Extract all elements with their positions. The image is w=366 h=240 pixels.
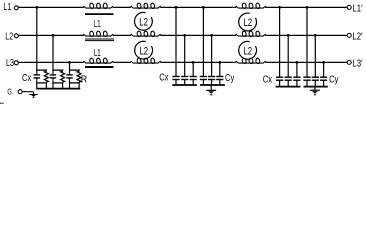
choke L2b row2 coil — [236, 31, 266, 37]
svg-text:L2: L2 — [243, 46, 252, 58]
capacitor Cx3 (left) — [69, 70, 71, 75]
junction dot L1 to right Cx — [278, 6, 281, 9]
svg-text:L2: L2 — [5, 32, 13, 43]
wire mid Cy rail to ground — [210, 85, 212, 90]
junction dot L3 to right Cx — [296, 61, 299, 64]
choke L2b row1 coil — [236, 3, 266, 9]
wire G to ground — [22, 91, 33, 93]
output terminal L3' — [347, 60, 351, 64]
capacitor mid Cy2 — [211, 35, 213, 76]
inductor L1 row2 coil — [83, 31, 113, 37]
resistor R2 — [62, 70, 64, 71]
CxR pair2 legs to rail — [52, 83, 54, 89]
wire L2 input segment — [18, 34, 83, 36]
CxR pair2 bottom bar — [52, 82, 63, 84]
junction dot L3 to mid Cy — [218, 61, 221, 64]
right Cy star rail — [304, 86, 328, 88]
capacitor mid Cy3 — [219, 62, 221, 76]
inductor L1 row3 coil — [83, 58, 113, 64]
CxR pair1 top bar — [36, 69, 47, 71]
svg-text:L2: L2 — [243, 17, 252, 29]
svg-text:L1: L1 — [3, 2, 11, 13]
junction dot L1 to mid Cx — [175, 6, 178, 9]
CxR pair3 top bar — [69, 69, 80, 71]
capacitor mid Cx2 — [184, 35, 186, 76]
inductor L1 row1 coil — [83, 3, 113, 9]
wire L1 between L1 and L2 coils — [113, 6, 131, 8]
junction dot L1 to right Cy — [306, 6, 309, 9]
wire L1 input segment — [18, 6, 83, 8]
output terminal L2' — [347, 33, 351, 37]
mid Cx star rail — [172, 84, 197, 86]
wire drop CxR 3 — [69, 62, 71, 70]
CxR pair3 legs to rail — [69, 83, 71, 89]
choke L2b row2 label — [239, 41, 257, 59]
svg-text:Cy: Cy — [225, 73, 234, 84]
CxR pair3 bottom bar — [69, 82, 80, 84]
wire L3 output segment — [265, 61, 347, 63]
junction dot L2 to mid Cy — [210, 34, 213, 37]
junction dot L2 to right Cy — [314, 34, 317, 37]
svg-text:Cx: Cx — [159, 73, 168, 84]
wire L2 between L1 and L2 coils — [113, 34, 131, 36]
capacitor Cx2 (left) — [52, 70, 54, 75]
inductor L1 row3 core bar — [85, 66, 114, 68]
inductor L1 row1 core bar — [85, 13, 114, 15]
wire L3 input segment — [18, 61, 83, 63]
CxR pair2 top bar — [52, 69, 63, 71]
junction dot L2 to right Cx — [287, 34, 290, 37]
choke L2a row3 coil — [131, 58, 161, 64]
capacitor mid Cx1 — [175, 7, 177, 76]
choke L2a row1 coil — [131, 3, 161, 9]
svg-text:L2: L2 — [139, 45, 148, 57]
wire drop CxR 2 — [52, 35, 54, 70]
capacitor right Cx2 — [287, 35, 289, 77]
svg-text:R: R — [81, 75, 87, 86]
svg-text:L1: L1 — [94, 48, 101, 59]
junction dot line3 to CxR — [68, 61, 71, 64]
wire right Cy rail to ground — [314, 87, 316, 90]
scan artifact pixels — [0, 103, 1, 104]
wire L1 output segment — [265, 6, 347, 8]
output terminal L1' — [347, 5, 351, 9]
inductor L1 row2 core bar — [85, 38, 114, 40]
junction dot L2 to mid Cx — [183, 34, 186, 37]
junction dot L3 to right Cy — [322, 61, 325, 64]
CxR pair1 legs to rail — [36, 83, 38, 89]
svg-text:Cy: Cy — [329, 74, 338, 85]
resistor R3 — [78, 70, 80, 71]
svg-text:L2′: L2′ — [352, 32, 362, 43]
choke L2a row2 label — [135, 41, 153, 59]
svg-text:Cx: Cx — [22, 73, 31, 84]
wire drop CxR 1 — [36, 7, 38, 70]
wire L3 between stages — [160, 61, 236, 63]
svg-text:L1′: L1′ — [352, 4, 362, 15]
ground symbol G — [29, 94, 37, 96]
svg-text:L3: L3 — [6, 58, 14, 69]
right Cx star rail — [276, 86, 301, 88]
capacitor right Cy2 — [314, 35, 316, 77]
junction dot line1 to CxR — [35, 6, 38, 9]
choke L2b row3 coil — [236, 58, 266, 64]
capacitor right Cx3 — [296, 62, 298, 77]
mid Cy star rail — [200, 84, 225, 86]
CxR pair1 bottom bar — [36, 82, 47, 84]
capacitor right Cx1 — [279, 7, 281, 77]
svg-text:L2: L2 — [139, 17, 148, 29]
wire L1 between stages — [160, 6, 236, 8]
svg-text:G: G — [7, 87, 11, 96]
CxR bottom rail — [36, 88, 80, 90]
choke L2b row1 label — [239, 13, 257, 31]
ground symbol mid — [206, 89, 216, 91]
capacitor right Cy1 — [306, 7, 308, 77]
capacitor Cx1 (left) — [36, 70, 38, 75]
wire L3 between L1 and L2 coils — [113, 61, 131, 63]
capacitor mid Cy1 — [202, 7, 204, 76]
junction dot L3 to mid Cx — [192, 61, 195, 64]
junction dot line2 to CxR — [52, 34, 55, 37]
capacitor right Cy3 — [323, 62, 325, 77]
ground symbol right — [310, 89, 320, 91]
junction dot L1 to mid Cy — [202, 6, 205, 9]
svg-text:L1: L1 — [94, 19, 101, 30]
svg-text:L3′: L3′ — [352, 59, 362, 70]
resistor R1 — [45, 70, 47, 71]
choke L2a row2 coil — [131, 31, 161, 37]
capacitor mid Cx3 — [192, 62, 194, 76]
wire L2 between stages — [160, 34, 236, 36]
svg-text:Cx: Cx — [263, 74, 272, 85]
choke L2a row1 label — [135, 12, 153, 30]
wire L2 output segment — [265, 34, 347, 36]
